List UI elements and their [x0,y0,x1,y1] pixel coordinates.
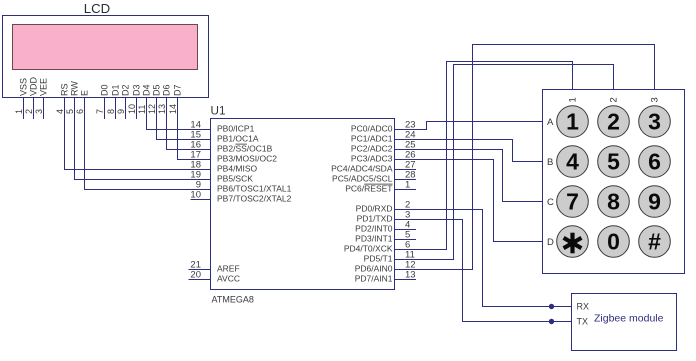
svg-text:1: 1 [568,97,579,102]
svg-text:8: 8 [607,189,620,215]
svg-text:PB1/OC1A: PB1/OC1A [217,134,259,144]
svg-text:Zigbee module: Zigbee module [594,313,664,325]
svg-text:D4: D4 [142,84,152,96]
svg-text:E: E [80,90,90,96]
svg-text:20: 20 [190,270,201,281]
svg-text:2: 2 [607,109,620,135]
svg-text:PC4/ADC4/SDA: PC4/ADC4/SDA [331,164,393,174]
svg-text:PD5/T1: PD5/T1 [364,254,393,264]
svg-text:7: 7 [95,109,105,114]
svg-text:PB4/MISO: PB4/MISO [217,164,258,174]
svg-text:1: 1 [405,180,410,191]
svg-text:D6: D6 [162,84,172,96]
svg-text:PD2/INT0: PD2/INT0 [355,224,393,234]
svg-text:4: 4 [566,149,579,175]
svg-text:TX: TX [577,317,589,327]
svg-text:AREF: AREF [217,264,240,274]
svg-text:D2: D2 [121,84,131,96]
svg-text:3: 3 [650,97,661,102]
svg-text:PC6/RESET: PC6/RESET [345,184,392,194]
svg-text:D5: D5 [152,84,162,96]
svg-text:12: 12 [147,104,157,114]
svg-text:PC2/ADC2: PC2/ADC2 [351,144,393,154]
svg-text:PD1/TXD: PD1/TXD [357,214,393,224]
svg-text:VDD: VDD [29,76,39,96]
svg-text:D3: D3 [132,84,142,96]
svg-text:B: B [547,157,553,168]
svg-text:13: 13 [405,270,416,281]
svg-text:PD7/AIN1: PD7/AIN1 [355,274,393,284]
svg-text:2: 2 [609,97,620,102]
svg-text:11: 11 [137,105,147,114]
svg-text:4: 4 [55,109,65,114]
svg-text:D: D [547,237,554,248]
svg-text:8: 8 [106,109,116,114]
svg-text:7: 7 [566,189,579,215]
svg-text:A: A [547,117,554,128]
svg-text:PD3/INT1: PD3/INT1 [355,234,393,244]
svg-text:ATMEGA8: ATMEGA8 [212,295,254,305]
svg-text:LCD: LCD [84,1,110,16]
svg-text:1: 1 [566,109,579,135]
svg-text:PC1/ADC1: PC1/ADC1 [351,134,393,144]
svg-text:#: # [648,229,661,255]
svg-text:RW: RW [70,81,80,96]
svg-text:5: 5 [607,149,620,175]
svg-text:13: 13 [157,104,167,114]
svg-text:PB6/TOSC1/XTAL1: PB6/TOSC1/XTAL1 [217,184,292,194]
svg-text:C: C [547,197,554,208]
svg-text:1: 1 [14,109,24,114]
svg-text:PD4/T0/XCK: PD4/T0/XCK [344,244,393,254]
svg-text:5: 5 [65,109,75,114]
svg-text:3: 3 [648,109,661,135]
svg-text:PB3/MOSI/OC2: PB3/MOSI/OC2 [217,154,277,164]
svg-text:RX: RX [577,302,590,312]
svg-text:2: 2 [24,109,34,114]
svg-text:10: 10 [190,190,201,201]
svg-text:VEE: VEE [39,78,49,96]
svg-text:D0: D0 [100,84,110,96]
svg-text:9: 9 [116,109,126,114]
svg-text:10: 10 [127,104,137,114]
svg-text:D7: D7 [173,84,183,96]
svg-text:PC3/ADC3: PC3/ADC3 [351,154,393,164]
svg-text:3: 3 [34,109,44,114]
svg-text:RS: RS [60,83,70,96]
svg-text:PB0/ICP1: PB0/ICP1 [217,124,255,134]
svg-text:6: 6 [75,109,85,114]
svg-text:PC5/ADC5/SCL: PC5/ADC5/SCL [332,174,393,184]
svg-text:D1: D1 [111,84,121,96]
svg-text:PD0/RXD: PD0/RXD [356,204,393,214]
svg-text:6: 6 [648,149,661,175]
svg-text:U1: U1 [211,105,226,118]
svg-text:0: 0 [607,229,620,255]
svg-text:AVCC: AVCC [217,274,240,284]
svg-text:PD6/AIN0: PD6/AIN0 [355,264,393,274]
svg-text:PC0/ADC0: PC0/ADC0 [351,124,393,134]
svg-text:14: 14 [168,104,178,114]
svg-text:PB5/SCK: PB5/SCK [217,174,253,184]
svg-text:PB7/TOSC2/XTAL2: PB7/TOSC2/XTAL2 [217,194,292,204]
svg-text:9: 9 [648,189,661,215]
svg-text:PB2/SS/OC1B: PB2/SS/OC1B [217,144,273,154]
svg-text:VSS: VSS [19,78,29,96]
